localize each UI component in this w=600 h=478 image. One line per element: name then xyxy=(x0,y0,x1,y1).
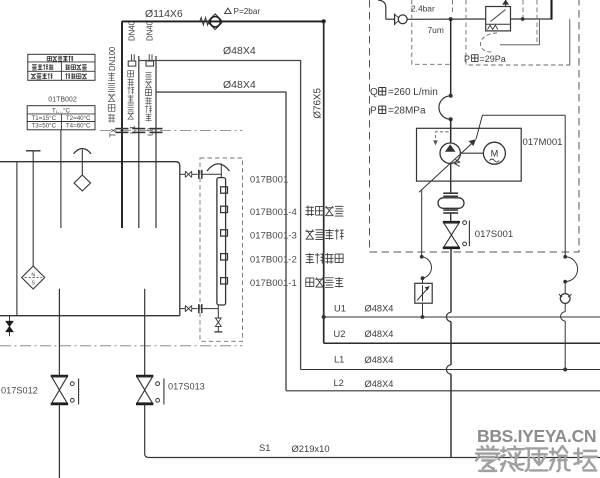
label S1 xyxy=(259,442,270,453)
watermark iyeya chinese xyxy=(476,446,597,471)
junction drain-U1 node xyxy=(421,315,425,319)
junction Tx/76 node xyxy=(322,19,326,23)
label 017B001-3 xyxy=(250,230,297,241)
pump variable arrow and pilot line to unloader xyxy=(419,115,565,192)
butterfly valve 017S001 xyxy=(443,220,470,248)
label L2 xyxy=(334,378,344,388)
svg-text:01TB002: 01TB002 xyxy=(48,97,77,104)
svg-text:=260 L/min: =260 L/min xyxy=(388,87,438,98)
label U2 xyxy=(334,329,346,339)
gauge top shutoff valve xyxy=(180,170,222,179)
svg-text:P: P xyxy=(464,54,470,64)
watermark BBS.IYEYA.CN xyxy=(477,426,596,446)
gauge vent arc xyxy=(207,164,229,178)
gauge bottom shutoff valve xyxy=(180,304,219,313)
label 017B001-1 xyxy=(250,278,297,289)
pump compensator dashed hook xyxy=(433,132,448,146)
wire suction line S012 down xyxy=(58,404,60,478)
label L1 pump leak oil port DN40 xyxy=(127,20,136,134)
svg-text:7um: 7um xyxy=(428,25,444,35)
svg-text:S: S xyxy=(31,281,35,287)
svg-text:T₁...°C: T₁...°C xyxy=(52,107,70,114)
wire tank connection pipe xyxy=(16,162,18,316)
check valve with spring on return line xyxy=(200,14,223,30)
breather filter xyxy=(74,149,92,192)
tank boundary dash-dot top xyxy=(100,130,243,132)
label pipe 48X4 b xyxy=(223,79,256,91)
label U2 pipe size xyxy=(365,329,394,339)
svg-text:Q: Q xyxy=(370,87,378,98)
wire unloader branch with hose xyxy=(563,115,577,293)
label 017B001-2 xyxy=(250,254,297,265)
wire main to top right xyxy=(550,0,552,20)
label Q=260 xyxy=(370,87,438,98)
svg-text:Ø48X4: Ø48X4 xyxy=(365,329,394,339)
bypass check valve 2.4bar xyxy=(395,14,408,26)
svg-text:017S012: 017S012 xyxy=(1,386,38,396)
temperature probe 01TB002 stem xyxy=(60,130,62,228)
wire U2 line xyxy=(324,342,600,344)
wire pipe 76X5 vertical xyxy=(323,21,325,343)
junction relief node xyxy=(521,17,525,21)
label L2 pipe size xyxy=(365,379,394,389)
label function drain pump stop xyxy=(306,277,344,288)
svg-text:L1: L1 xyxy=(128,126,137,134)
temperature switch table 01TB002 xyxy=(27,97,95,130)
label L1 pipe size xyxy=(365,355,394,365)
wire L1 line xyxy=(301,369,600,371)
wire main suction pipe with hops xyxy=(446,248,451,457)
wire suction line S1 xyxy=(145,404,600,457)
tank drain valve xyxy=(6,316,13,337)
svg-text:2.4bar: 2.4bar xyxy=(411,4,435,14)
label 7um xyxy=(428,25,444,35)
relief pilot dashed hook xyxy=(480,33,497,52)
svg-text:T3=50°C: T3=50°C xyxy=(31,123,56,130)
svg-text:M: M xyxy=(491,149,499,159)
label U1 pipe size xyxy=(365,304,394,314)
wire pump case drain with hose xyxy=(420,190,432,283)
wire filter inlet from top xyxy=(378,0,395,19)
label function stop filling xyxy=(306,206,344,217)
svg-text:017B001-2: 017B001-2 xyxy=(250,254,297,265)
label 017S001 xyxy=(475,229,513,240)
check valve on unloader branch xyxy=(559,294,572,304)
pump-motor shaft xyxy=(460,152,483,154)
butterfly valve 017S012 xyxy=(51,376,79,405)
flexible bellows joint xyxy=(438,163,464,221)
label pipe 76X5 xyxy=(313,88,324,119)
label function prompt filling xyxy=(305,229,343,240)
svg-text:L2: L2 xyxy=(146,128,155,136)
wire pump outlet with flexible loop xyxy=(439,19,453,143)
svg-text:Tx: Tx xyxy=(109,128,118,137)
label U1 xyxy=(334,304,346,314)
wire 48X4 line 2 xyxy=(156,92,286,391)
svg-text:Ø48X4: Ø48X4 xyxy=(365,379,394,389)
label pipe size 114 xyxy=(145,8,183,20)
svg-text:T1=15°C: T1=15°C xyxy=(31,115,56,122)
wire suction standpipe 017S013 xyxy=(144,289,146,376)
relief valve dashed box xyxy=(466,0,570,65)
svg-text:U1: U1 xyxy=(334,304,346,314)
svg-text:017B001: 017B001 xyxy=(250,175,288,186)
variable displacement pump xyxy=(440,143,460,167)
label 017S012 xyxy=(1,386,38,396)
svg-text:Ø76X5: Ø76X5 xyxy=(313,88,324,119)
label pipe 48X4 a xyxy=(223,45,256,57)
svg-text:Ø48X4: Ø48X4 xyxy=(365,304,394,314)
relief valve P=29 xyxy=(486,0,511,31)
svg-text:Ø219x10: Ø219x10 xyxy=(292,443,330,454)
svg-text:L1: L1 xyxy=(334,355,344,365)
wire relief to corner xyxy=(511,18,552,20)
wire suction standpipe 017S012 xyxy=(58,289,60,376)
tank boundary dash-dot bottom xyxy=(0,345,243,347)
port pipe Tx DN100 xyxy=(116,21,129,228)
wire 48X4 line 1 xyxy=(139,61,301,370)
svg-text:P: P xyxy=(370,106,377,117)
svg-text:DN40: DN40 xyxy=(145,20,154,41)
svg-text:=29Pa: =29Pa xyxy=(480,54,506,64)
temperature control function table xyxy=(28,54,95,80)
butterfly valve 017S013 xyxy=(136,376,164,405)
junction U1 node xyxy=(322,315,326,319)
svg-text:017B001-4: 017B001-4 xyxy=(250,207,298,218)
label 2.4bar xyxy=(411,4,435,14)
svg-text:Ø48X4: Ø48X4 xyxy=(223,45,256,57)
svg-text:DN40: DN40 xyxy=(128,20,137,41)
wire L2 line xyxy=(286,390,600,392)
pump station dashed enclosure xyxy=(370,0,580,252)
wire filter line xyxy=(407,18,486,20)
electric motor M xyxy=(483,142,505,164)
port pipe L2 DN40 xyxy=(146,54,163,228)
label L1 xyxy=(334,355,344,365)
svg-text:Ø114X6: Ø114X6 xyxy=(145,8,183,20)
svg-text:L2: L2 xyxy=(334,378,344,388)
label 017B001-4 xyxy=(250,207,298,218)
svg-text:=28MPa: =28MPa xyxy=(388,106,426,117)
wire unloader branch to L1 xyxy=(561,303,568,371)
svg-text:017S001: 017S001 xyxy=(475,229,513,240)
label pipe 219 xyxy=(292,443,330,454)
throttle valve on drain xyxy=(415,283,432,317)
wire relief drain elbow xyxy=(500,19,570,65)
label P=29Pa xyxy=(464,54,506,64)
label delta P 2bar xyxy=(225,7,261,16)
level gauge tube 017B001 with switches xyxy=(217,178,228,305)
capped filler port xyxy=(26,151,41,266)
label P=28MPa xyxy=(370,106,426,117)
label Tx circulation return port DN100 xyxy=(108,46,118,137)
port pipe L1 DN40 xyxy=(128,54,145,228)
svg-text:017B001-3: 017B001-3 xyxy=(250,230,297,241)
wire tank top manifold xyxy=(0,162,180,316)
label 017B001 xyxy=(250,175,288,186)
svg-text:017M001: 017M001 xyxy=(523,137,563,148)
suction strainer N/S xyxy=(22,266,45,289)
svg-text:BBS.IYEYA.CN: BBS.IYEYA.CN xyxy=(477,426,596,446)
gauge drain valve xyxy=(214,305,222,332)
level gauge dashed enclosure xyxy=(200,158,243,341)
svg-text:DN100: DN100 xyxy=(108,46,117,71)
wire U1 line xyxy=(324,316,600,318)
svg-text:T2=40°C: T2=40°C xyxy=(66,115,91,122)
svg-text:Ø48X4: Ø48X4 xyxy=(223,79,256,91)
junction filter/pump node xyxy=(449,17,453,21)
svg-text:017S013: 017S013 xyxy=(168,382,205,392)
svg-text:Ø48X4: Ø48X4 xyxy=(365,355,394,365)
wire suction header xyxy=(0,315,180,317)
svg-text:U2: U2 xyxy=(334,329,346,339)
filter dashed box xyxy=(412,0,453,64)
svg-text:S1: S1 xyxy=(259,442,270,453)
svg-text:T4=60°C: T4=60°C xyxy=(66,123,91,130)
label 017M001 xyxy=(523,137,563,148)
label function working pump stop xyxy=(306,253,344,264)
label 017S013 xyxy=(168,382,205,392)
label L2 motor leak oil port DN40 xyxy=(145,20,154,136)
pump unit box 017M001 xyxy=(417,128,522,181)
svg-text:N: N xyxy=(31,272,35,278)
wire main return line xyxy=(122,20,324,22)
svg-text:017B001-1: 017B001-1 xyxy=(250,278,297,289)
svg-text:P=2bar: P=2bar xyxy=(234,7,261,16)
